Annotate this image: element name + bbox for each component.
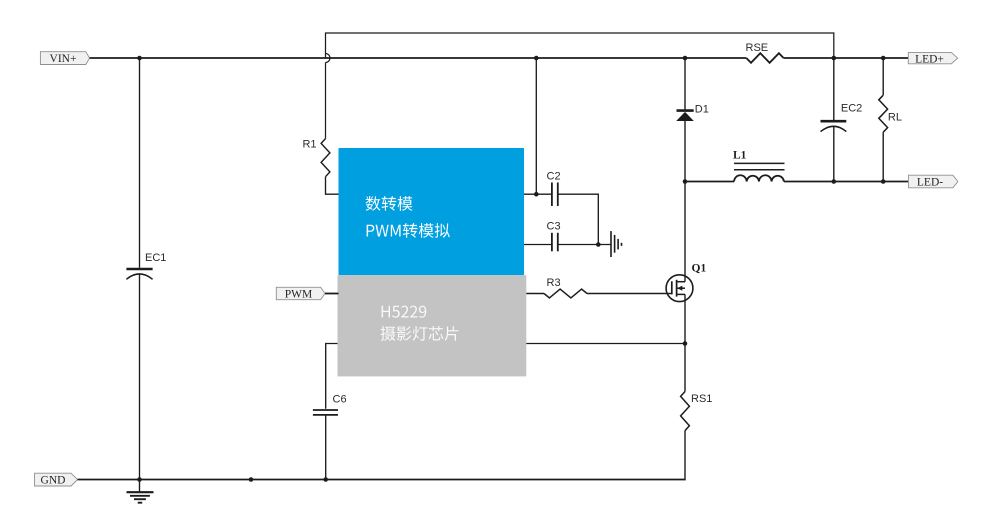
capacitor C6: [313, 394, 347, 415]
wire top bus to EC2: [833, 58, 835, 120]
wire U1 to C6: [326, 344, 338, 409]
wire C2 right: [558, 194, 599, 244]
junction node VIN/D1: [683, 56, 688, 61]
capacitor C3: [547, 221, 561, 252]
ground (signal, right-facing): [611, 231, 622, 257]
svg-text:C6: C6: [333, 394, 347, 406]
wire EC1 bottom: [139, 274, 141, 480]
transistor Q1 (N-MOSFET): [666, 263, 706, 302]
wire EC1 top: [139, 58, 141, 268]
wire D1 anode to switch node: [684, 121, 686, 182]
wire VIN to C2 column: [535, 58, 537, 194]
capacitor EC1: [126, 252, 166, 279]
junction node C3/ground: [596, 242, 601, 247]
svg-text:L1: L1: [733, 150, 747, 162]
capacitor EC2: [821, 103, 863, 132]
junction node RL/LED-: [881, 179, 886, 184]
resistor RL: [879, 95, 902, 132]
svg-text:LED-: LED-: [917, 177, 943, 189]
wire C2 left: [524, 193, 552, 195]
resistor RSE: [746, 42, 784, 63]
wire LED+ to RL: [882, 58, 884, 95]
wire C3 right: [558, 244, 611, 246]
svg-text:VIN+: VIN+: [50, 53, 77, 65]
wire EC2 to LED- rail: [833, 126, 835, 181]
junction node LED+/RL: [881, 56, 886, 61]
svg-text:EC2: EC2: [841, 103, 862, 115]
svg-text:Q1: Q1: [692, 263, 707, 275]
junction node LED+/EC2: [832, 56, 837, 61]
wire R3 to Q1 gate: [587, 293, 672, 295]
wire switch node to L1: [685, 181, 734, 183]
wire GND rail: [78, 479, 685, 481]
svg-text:GND: GND: [41, 475, 66, 487]
junction node EC2/LED-: [832, 179, 837, 184]
svg-text:EC1: EC1: [145, 252, 166, 264]
wire U1 CS to RS1 node: [526, 343, 685, 345]
wire RS1 to ground rail: [684, 431, 686, 481]
junction node C2 left: [534, 192, 539, 197]
DAC block (blue): PWM to analog: [339, 148, 525, 275]
junction node GND/C6: [323, 477, 328, 482]
svg-text:C3: C3: [547, 221, 561, 233]
inductor L1: [733, 150, 785, 182]
diode D1: [676, 104, 709, 122]
wire RSE to LED+: [784, 57, 909, 59]
wire switch node to Q1 drain: [684, 182, 686, 282]
capacitor C2: [547, 171, 561, 207]
junction node Q1 source/CS: [683, 341, 688, 346]
wire VIN+ rail: [90, 57, 747, 59]
svg-text:RS1: RS1: [691, 393, 712, 405]
wire U1 to R3: [526, 293, 544, 295]
net flag LED-: [908, 175, 958, 188]
svg-text:C2: C2: [547, 171, 561, 183]
junction node GND mid: [249, 477, 254, 482]
wire R1 to U1: [326, 177, 340, 195]
resistor RS1: [681, 392, 713, 431]
wire PWM to U1: [325, 293, 339, 295]
wire R1 column with hop over rail: [326, 54, 331, 63]
wire RL to LED- rail: [882, 132, 884, 181]
junction node VIN/EC1: [137, 56, 142, 61]
wire C3 left: [524, 244, 552, 246]
svg-text:LED+: LED+: [915, 54, 944, 66]
svg-text:R3: R3: [547, 277, 561, 289]
IC U1 H5229 block (gray): [338, 275, 527, 376]
wire Q1 source to RS1: [684, 294, 686, 391]
svg-text:PWM: PWM: [285, 289, 312, 301]
junction node VIN/C2 feed: [534, 56, 539, 61]
net flag GND: [35, 473, 78, 486]
junction node SW/L1: [683, 179, 688, 184]
net flag PWM: [276, 287, 325, 300]
svg-text:RSE: RSE: [746, 42, 769, 54]
wire top feedback bus: [326, 33, 834, 58]
junction node GND/EC1: [137, 477, 142, 482]
wire L1 to LED-: [784, 181, 909, 183]
ground (earth): [127, 480, 154, 503]
svg-text:D1: D1: [695, 104, 709, 116]
svg-text:R1: R1: [302, 139, 316, 151]
resistor R3: [544, 277, 587, 298]
resistor R1: [302, 139, 329, 177]
net flag LED+: [908, 52, 957, 65]
net flag VIN+: [40, 52, 89, 65]
wire VIN to D1 cathode: [684, 58, 686, 109]
svg-text:RL: RL: [888, 112, 902, 124]
wire C6 to ground rail: [325, 415, 327, 480]
